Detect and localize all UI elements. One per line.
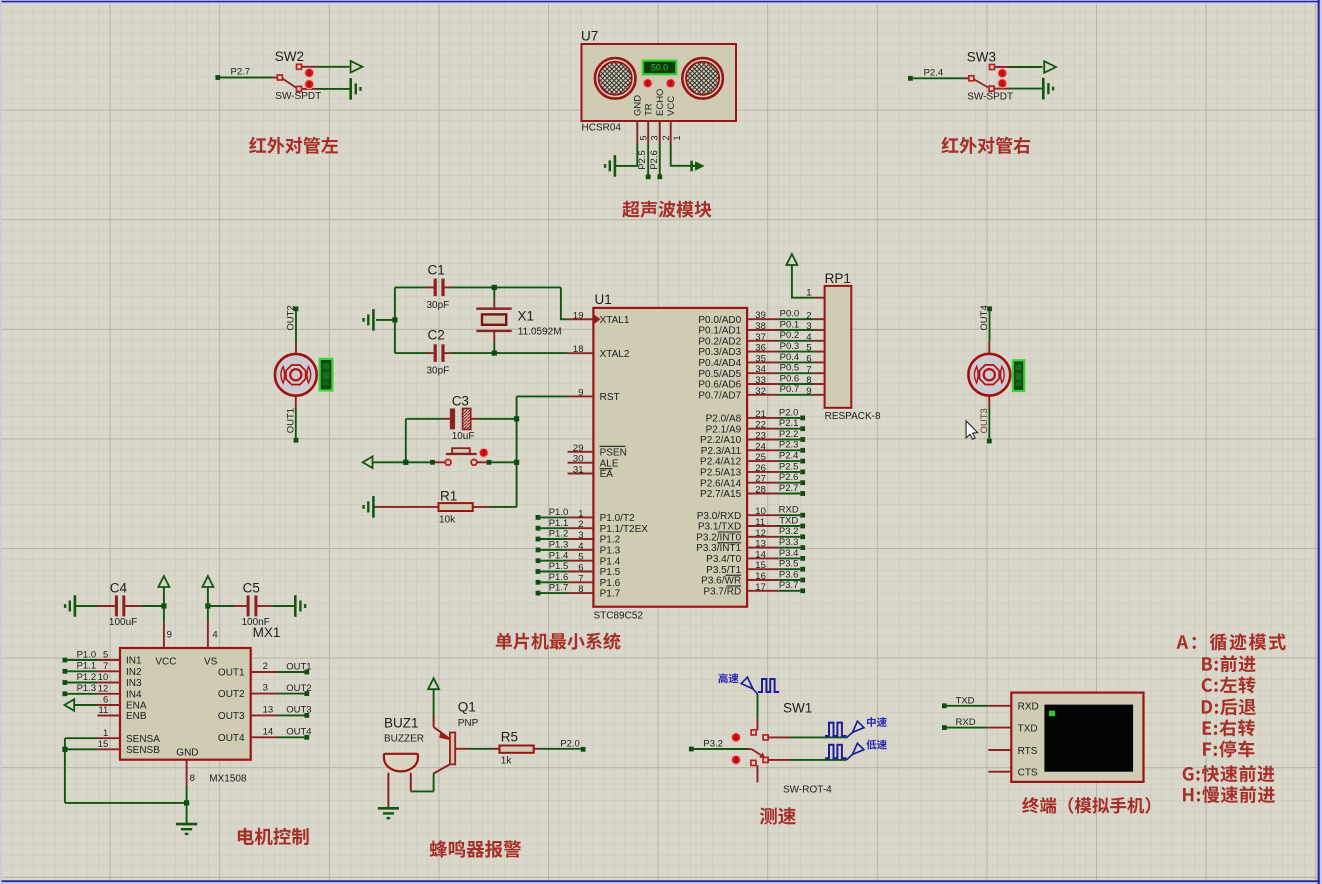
svg-text:100uF: 100uF xyxy=(109,617,137,628)
svg-text:37: 37 xyxy=(755,332,766,343)
svg-text:25: 25 xyxy=(755,452,766,463)
svg-text:SW2: SW2 xyxy=(275,49,304,64)
svg-text:P2.5/A13: P2.5/A13 xyxy=(700,468,742,479)
svg-text:SW-SPDT: SW-SPDT xyxy=(275,91,321,102)
svg-text:5: 5 xyxy=(103,650,108,661)
svg-text:6: 6 xyxy=(578,563,583,574)
ground C5 xyxy=(295,595,305,617)
svg-text:P2.6: P2.6 xyxy=(779,472,799,483)
resistor R1 xyxy=(374,489,517,526)
SW1 bottom stub xyxy=(757,765,759,782)
svg-text:22: 22 xyxy=(755,420,766,431)
U7 right transducer xyxy=(682,58,723,99)
SW1 mid branch 中速 xyxy=(768,721,864,738)
svg-text:P3.6/WR: P3.6/WR xyxy=(701,576,741,587)
MX1 left pins xyxy=(97,650,217,759)
motor left (OUT2/OUT1) xyxy=(275,354,317,396)
svg-text:9: 9 xyxy=(167,630,172,641)
wire OUT4 xyxy=(979,305,992,354)
svg-text:RESPACK-8: RESPACK-8 xyxy=(825,411,881,422)
terminal P2.4 xyxy=(908,67,965,80)
ground R1 xyxy=(364,496,374,518)
svg-text:P0.1: P0.1 xyxy=(780,319,800,330)
svg-text:35: 35 xyxy=(755,353,766,364)
svg-text:P0.4: P0.4 xyxy=(780,352,800,363)
svg-text:OUT4: OUT4 xyxy=(979,305,990,330)
svg-text:3: 3 xyxy=(650,135,660,140)
svg-text:5: 5 xyxy=(806,343,811,354)
SW2 state dots xyxy=(304,68,314,89)
U7 pin names xyxy=(633,89,677,116)
U7 indicator LEDs xyxy=(643,78,676,88)
svg-text:6: 6 xyxy=(103,695,108,706)
SW1 state dots xyxy=(731,732,741,765)
wire ECHO / net P2.6 xyxy=(649,144,662,180)
wire SW2 top contact to power xyxy=(302,66,350,68)
svg-text:IN3: IN3 xyxy=(126,678,142,689)
power flag Q1 xyxy=(428,678,439,718)
svg-text:23: 23 xyxy=(755,431,766,442)
svg-text:11: 11 xyxy=(755,517,765,528)
svg-text:P3.2/INT0: P3.2/INT0 xyxy=(696,532,741,543)
SW1 low branch 低速 xyxy=(768,743,864,760)
svg-text:P3.5: P3.5 xyxy=(779,559,799,570)
wire OUT1 xyxy=(285,396,298,443)
svg-text:SENSB: SENSB xyxy=(126,745,160,756)
switch SW2 xyxy=(272,49,321,102)
svg-text:3: 3 xyxy=(578,530,583,541)
svg-text:IN2: IN2 xyxy=(126,667,142,678)
svg-text:GND: GND xyxy=(633,95,644,116)
svg-text:P1.0/T2: P1.0/T2 xyxy=(600,513,635,524)
power flag VCC node xyxy=(158,576,169,609)
svg-text:P2.2: P2.2 xyxy=(779,429,799,440)
terminal P2.0 xyxy=(560,739,585,752)
svg-text:P1.1: P1.1 xyxy=(77,661,97,672)
svg-text:SW1: SW1 xyxy=(783,701,812,716)
svg-text:OUT4: OUT4 xyxy=(218,733,245,744)
svg-text:ECHO: ECHO xyxy=(655,89,666,116)
svg-text:P3.4: P3.4 xyxy=(779,548,799,559)
svg-text:P2.7: P2.7 xyxy=(231,67,251,78)
virtual terminal (模拟手机) xyxy=(988,693,1143,782)
svg-text:P1.2: P1.2 xyxy=(600,535,621,546)
svg-text:BUZZER: BUZZER xyxy=(384,734,424,745)
svg-text:2: 2 xyxy=(806,310,811,321)
svg-text:P3.6: P3.6 xyxy=(779,569,799,580)
svg-text:30pF: 30pF xyxy=(427,300,450,311)
svg-text:OUT3: OUT3 xyxy=(286,705,311,716)
svg-text:2: 2 xyxy=(578,519,583,530)
svg-text:P0.3: P0.3 xyxy=(780,341,800,352)
motor left rpm display xyxy=(320,359,333,391)
label 超声波模块 xyxy=(622,201,711,218)
label 单片机最小系统 xyxy=(496,633,621,650)
power flag RP1 xyxy=(786,254,797,265)
svg-text:14: 14 xyxy=(755,549,766,560)
wire U7 GND to ground xyxy=(616,144,637,166)
svg-text:ENB: ENB xyxy=(126,711,147,722)
svg-text:TXD: TXD xyxy=(956,695,975,706)
wires P0 bus to RP1 xyxy=(779,309,814,396)
svg-text:P2.3: P2.3 xyxy=(779,440,799,451)
svg-text:P1.5: P1.5 xyxy=(600,567,621,578)
svg-text:P2.1: P2.1 xyxy=(779,418,799,429)
svg-text:4: 4 xyxy=(212,630,217,641)
svg-text:P0.2: P0.2 xyxy=(780,330,800,341)
svg-text:P1.0: P1.0 xyxy=(77,649,97,660)
svg-text:2: 2 xyxy=(263,661,268,672)
svg-text:P2.4: P2.4 xyxy=(779,451,799,462)
svg-text:P1.3: P1.3 xyxy=(600,546,621,557)
svg-text:9: 9 xyxy=(578,387,583,398)
svg-text:32: 32 xyxy=(755,386,766,397)
svg-text:VCC: VCC xyxy=(155,657,176,668)
svg-text:ALE: ALE xyxy=(600,458,619,469)
svg-text:P1.7: P1.7 xyxy=(600,589,621,600)
resistor pack RP1 xyxy=(825,271,881,422)
svg-text:P2.7/A15: P2.7/A15 xyxy=(700,489,742,500)
terminal P3.2 xyxy=(689,738,748,751)
svg-text:ENA: ENA xyxy=(126,701,147,712)
svg-text:STC89C52: STC89C52 xyxy=(594,611,644,622)
svg-text:P3.2: P3.2 xyxy=(779,526,799,537)
label 中速 xyxy=(867,717,887,727)
svg-text:P1.2: P1.2 xyxy=(549,529,569,540)
svg-text:OUT3: OUT3 xyxy=(218,711,245,722)
svg-text:21: 21 xyxy=(755,409,766,420)
svg-text:MX1508: MX1508 xyxy=(209,774,247,785)
svg-text:HCSR04: HCSR04 xyxy=(582,122,622,133)
svg-text:RXD: RXD xyxy=(956,717,976,728)
svg-text:P3.7: P3.7 xyxy=(779,580,799,591)
svg-text:TXD: TXD xyxy=(1018,724,1038,735)
RP1 pin 1 to power xyxy=(792,265,825,298)
svg-text:P1.1/T2EX: P1.1/T2EX xyxy=(600,524,649,535)
svg-text:1: 1 xyxy=(103,728,108,739)
wire button to rail xyxy=(487,460,517,465)
power flag U7 xyxy=(692,161,705,172)
svg-text:36: 36 xyxy=(755,343,766,354)
label 红外对管右 xyxy=(941,137,1030,154)
svg-text:OUT1: OUT1 xyxy=(218,668,245,679)
MX1 GND pin 8 xyxy=(187,760,195,823)
wire SW3 top contact to power xyxy=(995,66,1043,68)
svg-text:P3.4/T0: P3.4/T0 xyxy=(706,554,741,565)
wire VCC to power xyxy=(671,144,691,166)
wire SW2 bottom contact to ground xyxy=(302,88,351,90)
ultrasonic module U7 HCSR04 xyxy=(581,29,736,134)
svg-text:P2.4: P2.4 xyxy=(924,67,944,78)
wire XTAL1 xyxy=(561,287,568,319)
svg-text:U1: U1 xyxy=(595,292,612,307)
svg-text:10k: 10k xyxy=(439,515,456,526)
svg-text:P1.4: P1.4 xyxy=(549,550,569,561)
svg-text:8: 8 xyxy=(578,584,583,595)
svg-text:P3.0/RXD: P3.0/RXD xyxy=(697,511,741,522)
svg-text:P1.2: P1.2 xyxy=(77,672,97,683)
ground C4 xyxy=(65,595,75,617)
svg-text:28: 28 xyxy=(755,485,766,496)
MCU U1 STC89C52 xyxy=(593,292,747,622)
input flag left xyxy=(363,457,373,469)
svg-text:SW-ROT-4: SW-ROT-4 xyxy=(783,785,832,796)
svg-text:P2.0/A8: P2.0/A8 xyxy=(706,414,742,425)
svg-text:4: 4 xyxy=(806,332,811,343)
svg-text:C2: C2 xyxy=(428,328,445,343)
wires P2 nets xyxy=(779,407,805,496)
legend key list xyxy=(1177,633,1286,803)
svg-text:P0.4/AD4: P0.4/AD4 xyxy=(698,358,741,369)
svg-text:C3: C3 xyxy=(452,394,469,409)
svg-text:P0.0: P0.0 xyxy=(780,309,800,320)
svg-text:SW3: SW3 xyxy=(967,50,996,65)
ground U7 xyxy=(605,155,615,177)
svg-text:VCC: VCC xyxy=(666,96,677,116)
svg-text:TR: TR xyxy=(644,103,655,116)
svg-text:P2.6: P2.6 xyxy=(649,150,660,170)
svg-text:P2.1/A9: P2.1/A9 xyxy=(706,424,742,435)
resistor R5 xyxy=(469,730,581,767)
svg-text:1: 1 xyxy=(672,135,682,140)
button state dot xyxy=(479,448,489,458)
svg-text:P0.5: P0.5 xyxy=(780,363,800,374)
svg-text:29: 29 xyxy=(573,443,584,454)
mouse cursor xyxy=(966,421,978,439)
svg-text:P0.1/AD1: P0.1/AD1 xyxy=(698,326,741,337)
wire button rail xyxy=(373,419,436,465)
svg-text:MX1: MX1 xyxy=(253,625,281,640)
svg-text:39: 39 xyxy=(755,310,766,321)
wire crystal left rail xyxy=(376,287,398,353)
ground SW2 xyxy=(351,78,361,100)
SW1 top branch 高速 xyxy=(741,677,779,730)
label 电机控制 xyxy=(238,828,309,845)
svg-text:PSEN: PSEN xyxy=(600,447,627,458)
svg-text:1: 1 xyxy=(578,508,583,519)
svg-text:OUT2: OUT2 xyxy=(218,689,245,700)
svg-text:10: 10 xyxy=(755,506,766,517)
svg-text:17: 17 xyxy=(755,582,766,593)
svg-text:5: 5 xyxy=(578,552,583,563)
svg-text:P1.3: P1.3 xyxy=(549,540,569,551)
svg-text:31: 31 xyxy=(573,465,584,476)
svg-text:P1.6: P1.6 xyxy=(549,572,569,583)
wire SW3 bottom contact to ground xyxy=(994,88,1043,90)
RP1 pins 2-9 xyxy=(806,310,824,397)
svg-text:11: 11 xyxy=(98,705,108,716)
svg-text:38: 38 xyxy=(755,321,766,332)
svg-text:P2.4/A12: P2.4/A12 xyxy=(700,457,742,468)
svg-text:10: 10 xyxy=(98,672,109,683)
svg-text:15: 15 xyxy=(98,739,109,750)
svg-text:OUT3: OUT3 xyxy=(979,408,990,433)
SW3 state dots xyxy=(997,68,1007,88)
svg-text:9: 9 xyxy=(806,386,811,397)
svg-text:C5: C5 xyxy=(243,581,260,596)
label 蜂鸣器报警 xyxy=(430,840,522,857)
terminal P2.7 xyxy=(215,67,272,80)
ground crystal xyxy=(364,309,374,331)
svg-text:12: 12 xyxy=(98,684,109,695)
svg-text:BUZ1: BUZ1 xyxy=(384,716,419,731)
U1 clock input symbol xyxy=(594,315,600,324)
wire OUT3 xyxy=(979,396,992,444)
svg-text:14: 14 xyxy=(263,726,274,737)
label 测速 xyxy=(760,807,796,824)
label 高速 xyxy=(718,673,738,683)
svg-text:P2.7: P2.7 xyxy=(779,483,799,494)
motor right (OUT4/OUT3) xyxy=(968,354,1010,396)
wire TR / net P2.5 xyxy=(637,144,650,180)
svg-text:P0.3/AD3: P0.3/AD3 xyxy=(698,347,741,358)
svg-text:2: 2 xyxy=(661,135,671,140)
svg-text:P3.1/TXD: P3.1/TXD xyxy=(698,522,741,533)
svg-text:P0.6: P0.6 xyxy=(780,373,800,384)
wires P1.0-P1.7 nets xyxy=(536,507,569,596)
wire Q1 collector to buzzer xyxy=(411,774,434,792)
ENA input flag xyxy=(64,699,97,711)
wires P3 nets xyxy=(779,505,805,594)
svg-text:OUT2: OUT2 xyxy=(286,683,311,694)
U7 left transducer xyxy=(595,58,636,99)
svg-text:XTAL1: XTAL1 xyxy=(600,315,630,326)
svg-text:33: 33 xyxy=(755,375,766,386)
svg-text:11.0592M: 11.0592M xyxy=(518,327,562,338)
svg-text:8: 8 xyxy=(806,375,811,386)
capacitor C4 xyxy=(76,581,164,629)
svg-text:4: 4 xyxy=(578,541,583,552)
wire OUT2 xyxy=(285,305,298,354)
MX1 VCC pin 9 xyxy=(164,606,172,648)
svg-text:RST: RST xyxy=(600,392,620,403)
label 红外对管左 xyxy=(249,137,338,154)
svg-text:P2.2/A10: P2.2/A10 xyxy=(700,435,742,446)
U7 distance display 50.0 xyxy=(643,61,677,75)
svg-text:R5: R5 xyxy=(501,730,518,745)
ground buzzer xyxy=(378,808,399,818)
svg-text:5: 5 xyxy=(639,135,649,140)
svg-text:P1.0: P1.0 xyxy=(549,507,569,518)
svg-text:24: 24 xyxy=(755,441,766,452)
svg-text:34: 34 xyxy=(755,364,766,375)
svg-text:P2.6/A14: P2.6/A14 xyxy=(700,478,742,489)
svg-text:OUT1: OUT1 xyxy=(285,408,296,433)
label 终端（模拟手机） xyxy=(1022,797,1150,814)
svg-text:OUT2: OUT2 xyxy=(285,305,296,330)
ground SW3 xyxy=(1043,78,1053,100)
svg-text:CTS: CTS xyxy=(1018,768,1038,779)
transistor Q1 PNP xyxy=(434,700,479,774)
svg-text:3: 3 xyxy=(806,321,811,332)
svg-text:TXD: TXD xyxy=(779,515,798,526)
svg-text:RP1: RP1 xyxy=(825,271,851,286)
U1 left pin stubs xyxy=(568,310,594,595)
svg-text:P1.3: P1.3 xyxy=(77,683,97,694)
svg-text:13: 13 xyxy=(263,705,274,716)
svg-text:P1.7: P1.7 xyxy=(549,583,569,594)
svg-text:7: 7 xyxy=(806,364,811,375)
svg-text:P2.0: P2.0 xyxy=(779,407,799,418)
svg-text:R1: R1 xyxy=(440,489,457,504)
motor driver MX1 MX1508 xyxy=(120,625,280,785)
buzzer BUZ1 xyxy=(384,716,424,808)
svg-text:10uF: 10uF xyxy=(452,431,475,442)
ground MX1 xyxy=(176,824,197,834)
svg-text:P2.0: P2.0 xyxy=(560,739,580,750)
wire SENSA/SENSB to ground net xyxy=(62,738,189,805)
svg-text:C4: C4 xyxy=(110,581,128,596)
capacitor C5 xyxy=(208,581,295,629)
svg-text:Q1: Q1 xyxy=(458,700,476,715)
wire RST rail xyxy=(514,396,568,507)
motor right rpm display xyxy=(1013,360,1025,391)
MX1 VS pin 4 xyxy=(208,606,218,648)
capacitor C2 xyxy=(395,328,568,377)
wire RXD net xyxy=(942,717,988,730)
power flag SW2 xyxy=(351,61,363,73)
svg-text:C1: C1 xyxy=(428,263,445,278)
svg-text:3: 3 xyxy=(263,683,268,694)
svg-text:27: 27 xyxy=(755,474,766,485)
svg-text:P1.5: P1.5 xyxy=(549,561,569,572)
svg-text:SENSA: SENSA xyxy=(126,734,160,745)
svg-text:P0.0/AD0: P0.0/AD0 xyxy=(698,315,741,326)
svg-text:RXD: RXD xyxy=(1018,702,1039,713)
svg-text:P0.2/AD2: P0.2/AD2 xyxy=(698,336,741,347)
svg-text:7: 7 xyxy=(103,661,108,672)
push button xyxy=(435,448,487,465)
capacitor C3 xyxy=(406,394,517,443)
label 低速 xyxy=(866,740,886,750)
svg-text:1k: 1k xyxy=(501,756,513,767)
svg-text:P3.3/INT1: P3.3/INT1 xyxy=(696,543,741,554)
U7 pins xyxy=(637,121,682,144)
wires P1.0-P1.3 to MX1 xyxy=(63,649,98,696)
svg-text:13: 13 xyxy=(755,539,766,550)
svg-text:PNP: PNP xyxy=(458,718,479,729)
svg-text:OUT1: OUT1 xyxy=(286,661,311,672)
svg-text:RXD: RXD xyxy=(779,505,799,516)
svg-text:P0.7/AD7: P0.7/AD7 xyxy=(698,390,741,401)
svg-text:P3.2: P3.2 xyxy=(703,738,723,749)
switch SW3 xyxy=(965,50,1013,103)
svg-text:SW-SPDT: SW-SPDT xyxy=(967,92,1013,103)
svg-text:VS: VS xyxy=(204,657,218,668)
svg-text:P3.3: P3.3 xyxy=(779,537,799,548)
MX1 OUT pins and nets xyxy=(218,661,312,744)
svg-text:P1.1: P1.1 xyxy=(549,518,569,529)
svg-text:30: 30 xyxy=(573,454,584,465)
svg-text:7: 7 xyxy=(578,573,583,584)
svg-text:18: 18 xyxy=(573,344,584,355)
svg-text:RTS: RTS xyxy=(1018,746,1038,757)
svg-text:P2.5: P2.5 xyxy=(637,150,648,170)
svg-text:26: 26 xyxy=(755,463,766,474)
svg-text:P1.4: P1.4 xyxy=(600,556,621,567)
svg-text:P0.7: P0.7 xyxy=(780,384,800,395)
svg-text:P0.5/AD5: P0.5/AD5 xyxy=(698,369,741,380)
svg-text:8: 8 xyxy=(190,773,195,784)
svg-text:EA: EA xyxy=(600,469,614,480)
svg-text:IN1: IN1 xyxy=(126,656,142,667)
svg-text:P3.7/RD: P3.7/RD xyxy=(703,586,741,597)
svg-text:P2.5: P2.5 xyxy=(779,461,799,472)
svg-text:IN4: IN4 xyxy=(126,689,142,700)
rotary switch SW1 xyxy=(748,701,832,796)
crystal X1 xyxy=(476,285,561,356)
svg-text:GND: GND xyxy=(176,748,198,759)
